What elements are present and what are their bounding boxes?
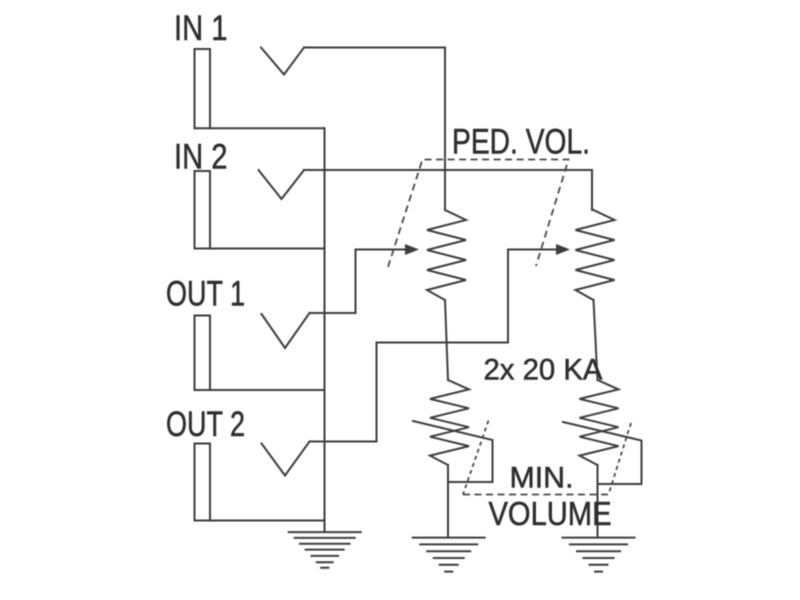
- wire J2 sleeve to ground bus: [195, 248, 325, 250]
- jack J3 OUT1 body (sleeve): [195, 316, 211, 391]
- wire trimmer R2 bottom to ground: [597, 465, 599, 538]
- wire OUT2 tip to VR2 wiper: [310, 250, 558, 442]
- jack J2 IN2 body (sleeve): [195, 171, 211, 249]
- jack J4 OUT2 tip contact: [262, 442, 310, 476]
- ganged link dashed line PED. VOL.: [388, 160, 569, 268]
- potentiometer VR1 resistive element: [427, 210, 466, 300]
- wire J4 sleeve to ground bus: [195, 520, 325, 522]
- wire VR2 bottom to trimmer R2 top: [594, 300, 598, 380]
- wire J1 sleeve to ground bus: [195, 127, 325, 129]
- svg-text:OUT 2: OUT 2: [166, 404, 245, 444]
- svg-text:IN 2: IN 2: [174, 137, 228, 177]
- VR1 wiper arrowhead: [405, 244, 419, 255]
- ganged link dashed line MIN. VOLUME horizontal: [463, 494, 609, 496]
- jack J1 IN1 tip contact: [261, 48, 304, 75]
- ground symbol G3 (trimmer R2): [562, 538, 636, 572]
- potentiometer VR2 resistive element: [576, 210, 615, 300]
- trimmer R2 wiper and bracket to bottom lead: [563, 422, 642, 484]
- svg-text:IN 1: IN 1: [174, 8, 228, 48]
- ground symbol G2 (trimmer R1): [412, 538, 486, 572]
- trimmer R1 resistive element: [430, 380, 469, 465]
- wire VR1 bottom to trimmer R1 top: [445, 300, 448, 380]
- jack J2 IN2 tip contact: [259, 170, 305, 199]
- svg-text:OUT 1: OUT 1: [166, 274, 245, 314]
- wire J3 sleeve to ground bus: [195, 389, 325, 391]
- jack J3 OUT1 tip contact: [262, 313, 310, 348]
- wire trimmer R1 bottom to ground: [447, 465, 449, 538]
- svg-text:VOLUME: VOLUME: [489, 495, 612, 532]
- jack J1 IN1 body (sleeve): [195, 49, 211, 128]
- svg-text:PED. VOL.: PED. VOL.: [452, 123, 590, 162]
- jack J4 OUT2 body (sleeve): [195, 444, 211, 521]
- wire IN1 tip to VR1 top: [304, 48, 445, 211]
- svg-text:MIN.: MIN.: [510, 462, 574, 495]
- ground symbol G1 (jack bus): [288, 532, 362, 568]
- wire IN2 tip to VR2 top: [304, 170, 592, 210]
- ganged link dashed diagonal right (trimmer R2): [609, 423, 632, 495]
- trimmer R1 wiper and bracket to bottom lead: [413, 421, 493, 482]
- trimmer R2 resistive element: [580, 380, 619, 465]
- svg-text:2x 20 KA: 2x 20 KA: [484, 354, 603, 387]
- wire OUT1 tip to VR1 wiper: [310, 250, 407, 314]
- ganged link dashed diagonal left (trimmer R1): [463, 421, 489, 495]
- VR2 wiper arrowhead: [556, 244, 570, 255]
- ground bus wire: [324, 128, 326, 532]
